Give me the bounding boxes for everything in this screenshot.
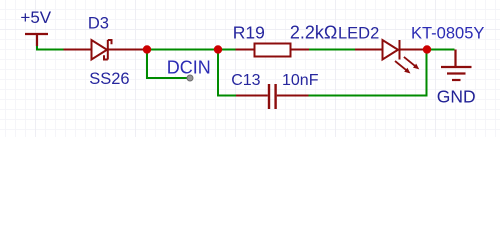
- LED arrow 1: [395, 61, 411, 74]
- LED LED2: [355, 40, 423, 60]
- svg-text:KT-0805Y: KT-0805Y: [411, 25, 484, 43]
- junction node C: [423, 45, 431, 53]
- junction node B: [214, 45, 222, 53]
- svg-text:LED2: LED2: [338, 25, 379, 43]
- LED arrow 2: [404, 57, 419, 70]
- power flag +5V: [25, 34, 48, 46]
- wire +5V corner to D3: [37, 45, 65, 50]
- wire D3 cathode to R19 net: [107, 49, 218, 51]
- diode D3: [64, 40, 146, 60]
- svg-text:R19: R19: [233, 23, 265, 43]
- resistor R19: [236, 44, 310, 57]
- svg-text:D3: D3: [88, 14, 109, 32]
- svg-text:+5V: +5V: [20, 8, 51, 27]
- svg-text:DCIN: DCIN: [167, 58, 211, 78]
- ground: [441, 50, 472, 81]
- wire DCIN branch: [147, 50, 188, 79]
- svg-text:2.2kΩ: 2.2kΩ: [290, 23, 337, 43]
- svg-text:10nF: 10nF: [282, 72, 319, 89]
- wire R19 to LED2: [309, 49, 355, 51]
- wire C13 branch left: [218, 50, 236, 96]
- capacitor C13: [236, 84, 309, 109]
- junction node A: [143, 45, 151, 53]
- svg-text:GND: GND: [437, 86, 476, 106]
- wire C13 branch right: [309, 50, 427, 96]
- wire LED2 cathode to GND: [427, 49, 455, 51]
- svg-text:SS26: SS26: [89, 70, 129, 88]
- net port DCIN pin end: [187, 75, 193, 81]
- svg-text:C13: C13: [231, 72, 260, 89]
- wire node B to R19: [218, 49, 236, 51]
